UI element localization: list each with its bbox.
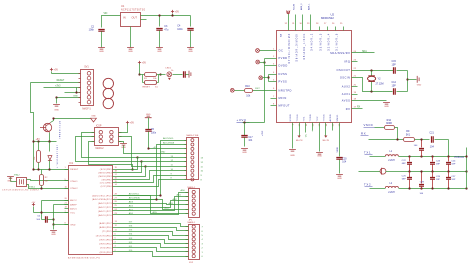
svg-text:LED1: LED1 — [166, 67, 172, 69]
wire digital 0 to JP4 — [118, 252, 204, 259]
wire analog AD5 to JP3 — [118, 196, 189, 214]
svg-text:AVSS: AVSS — [342, 99, 351, 103]
svg-text:AUX2: AUX2 — [342, 85, 351, 89]
ground triangle right of T1 — [91, 116, 97, 122]
wire TX1 stub down — [304, 123, 306, 138]
wire analog AD3 to JP3 — [118, 202, 189, 205]
svg-text:(ICP)PB0: (ICP)PB0 — [101, 186, 113, 188]
pushbutton S1 reset switch — [143, 75, 159, 89]
ground IC1 — [50, 231, 57, 237]
+5V rail above reset circuit — [34, 139, 57, 141]
svg-text:ADC4/SDA: ADC4/SDA — [163, 142, 174, 145]
svg-text:GND: GND — [417, 84, 422, 86]
svg-text:(SCK)PB5: (SCK)PB5 — [100, 169, 113, 171]
svg-text:+5V: +5V — [175, 10, 180, 13]
svg-text:(AIN0)PD6: (AIN0)PD6 — [99, 226, 112, 229]
svg-text:TX1: TX1 — [364, 150, 371, 154]
labels ADC nets at IC1 — [129, 193, 140, 216]
rail TX1 — [399, 156, 467, 158]
svg-text:OUT: OUT — [132, 15, 138, 19]
svg-text:TVSS: TVSS — [297, 114, 299, 121]
svg-text:D3/ADR_3: D3/ADR_3 — [319, 33, 322, 51]
svg-text:ADC4/SDA: ADC4/SDA — [129, 197, 140, 200]
svg-text:VMID: VMID — [337, 114, 339, 121]
inductor L1 2.2uH — [385, 151, 398, 162]
wire AVDD stub down — [332, 123, 334, 131]
wire PVDD DVDD tie — [265, 59, 277, 66]
capacitor C18 coupling — [414, 140, 424, 157]
junction at C3 tap — [158, 14, 160, 16]
junction MOSI bus — [144, 165, 146, 167]
capacitor C5 — [145, 118, 157, 149]
svg-text:VMID: VMID — [364, 123, 374, 127]
svg-text:(RXD)PD0: (RXD)PD0 — [100, 252, 113, 254]
wire AVSS to ground — [352, 100, 387, 102]
ground under C17 — [241, 149, 248, 155]
svg-text:GND: GND — [317, 156, 322, 158]
wire U2 top pin 25 — [343, 27, 345, 31]
capacitor C25 tuning — [402, 172, 412, 189]
svg-text:ADR_1: ADR_1 — [307, 3, 310, 10]
wire AUX1 stub — [352, 94, 358, 96]
svg-text:+3V3: +3V3 — [262, 130, 264, 136]
svg-text:IRQ: IRQ — [344, 60, 350, 64]
svg-text:MFRC522: MFRC522 — [321, 16, 334, 20]
net label +3V3 — [237, 118, 250, 122]
svg-text:IN: IN — [123, 15, 126, 19]
svg-text:18P: 18P — [451, 179, 455, 181]
wire VIN input net — [102, 13, 121, 28]
capacitor C22 tuning — [402, 157, 412, 172]
wire GND to JP2 — [124, 146, 187, 154]
svg-text:MA08-1: MA08-1 — [188, 221, 196, 224]
junctions TX1 rail — [408, 155, 449, 157]
IC IC1 ATMEGA body — [68, 162, 113, 260]
ground above C5 — [145, 114, 152, 118]
+5V supply symbol — [171, 10, 180, 14]
svg-text:(ADC0)PC0: (ADC0)PC0 — [98, 214, 112, 217]
power flag on R10 — [230, 88, 234, 92]
svg-text:CSTCE16M0V53-R0 16MHZ: CSTCE16M0V53-R0 16MHZ — [2, 189, 39, 191]
svg-text:DTC114EKA1: DTC114EKA1 — [58, 121, 61, 140]
wire RESET row — [34, 169, 69, 171]
wire digital 9 to JP2 — [118, 173, 187, 182]
capacitor C27 tuning — [446, 172, 456, 189]
wire MFIN stub — [271, 98, 277, 100]
capacitor C26 tuning — [430, 172, 441, 189]
junction SCK bus — [140, 160, 142, 162]
wire TVDD stub down — [312, 123, 314, 134]
svg-text:2.2UH: 2.2UH — [388, 160, 395, 162]
svg-text:(AIN1)PD7: (AIN1)PD7 — [99, 222, 112, 225]
ground sideways crystal — [408, 76, 422, 86]
svg-text:1N4148DO35-7: 1N4148DO35-7 — [56, 145, 58, 169]
svg-text:+5V: +5V — [142, 61, 147, 64]
+5V supply for ICSP — [119, 121, 135, 133]
svg-text:R10: R10 — [245, 85, 250, 88]
junction gnd tap — [52, 223, 54, 225]
junction T1 collector — [52, 117, 54, 119]
svg-text:GND: GND — [188, 51, 193, 53]
svg-text:820R: 820R — [386, 122, 392, 125]
wire +5V to SV1 pin1 — [52, 73, 81, 75]
svg-text:AVDD: AVDD — [329, 114, 332, 122]
svg-text:100n: 100n — [151, 133, 157, 135]
wire OSCIN to crystal — [352, 78, 408, 92]
wire analog AD2 to JP3 — [118, 198, 189, 208]
svg-text:ADC5/SCL: ADC5/SCL — [163, 137, 174, 140]
svg-text:68P: 68P — [402, 163, 406, 165]
resistor R3 reset pullup — [34, 142, 40, 170]
wire analog AD4 to JP3 — [118, 200, 189, 210]
U2 top pin names inside — [280, 33, 339, 64]
wire RESET net down left — [31, 83, 34, 170]
resistor R9 — [404, 130, 430, 141]
wire TX1 to L1 — [370, 156, 386, 158]
resistor R1 — [140, 73, 166, 81]
svg-text:18P: 18P — [436, 179, 440, 181]
wire AUX2 stub — [352, 86, 358, 88]
svg-text:GND: GND — [91, 116, 96, 118]
wire RX row — [369, 139, 404, 141]
+5V supply for ISP header — [50, 68, 59, 74]
svg-text:D2/ADR_4: D2/ADR_4 — [327, 33, 330, 51]
U2 top pin numbers — [285, 23, 343, 25]
wire digital 8 to JP2 — [118, 178, 187, 187]
capacitor C14 — [392, 81, 397, 95]
diode D1 1N4148 — [48, 142, 58, 170]
svg-text:(ADC5/SCL)PC5: (ADC5/SCL)PC5 — [92, 194, 112, 197]
wire digital 6 to JP4 — [118, 228, 204, 233]
svg-text:+5V: +5V — [54, 68, 59, 71]
ground under C20 — [336, 175, 343, 181]
crystal Y2 27.12MHz — [368, 71, 384, 92]
net label TX2 — [364, 182, 373, 186]
svg-text:RX: RX — [361, 131, 366, 135]
svg-text:RESET: RESET — [143, 87, 151, 89]
svg-text:ADC6: ADC6 — [70, 208, 77, 211]
wire ICSP GND pin — [119, 142, 124, 144]
capacitor C15 — [392, 60, 397, 74]
svg-text:GND: GND — [70, 225, 76, 227]
ground resonator — [7, 177, 14, 183]
wire U2 top pin 31 — [294, 4, 296, 31]
pin header ICSP 2x3 — [92, 125, 122, 150]
svg-text:D1/ADR_5: D1/ADR_5 — [335, 33, 338, 51]
wire SDA net — [352, 50, 375, 53]
svg-text:MA06-1: MA06-1 — [188, 186, 196, 189]
svg-text:(T1)PD5: (T1)PD5 — [102, 231, 112, 233]
svg-text:(ADC3)PC3: (ADC3)PC3 — [98, 202, 112, 205]
capacitor C29 center lower — [419, 172, 425, 196]
junction at +5V symbol — [171, 14, 173, 16]
wire U2 top pin 26 — [335, 27, 337, 31]
svg-text:RESET: RESET — [57, 80, 65, 82]
wire T1 emitter to rail — [49, 133, 51, 142]
junction rail right top — [465, 155, 467, 157]
rail right vertical — [466, 148, 468, 189]
wire AREF row — [54, 205, 69, 225]
svg-text:(SS)PB2: (SS)PB2 — [102, 179, 113, 181]
wire I2C/EA pin with fork symbol — [286, 11, 290, 31]
wire ADC4/SDA to JP2 — [118, 142, 187, 200]
wire TX2 pin to ground — [319, 123, 321, 152]
junction +5V row — [147, 147, 149, 149]
pin header JP2 upper — [185, 134, 199, 181]
U2 left pin names and numbers — [273, 48, 292, 107]
ground under U1 — [127, 48, 134, 54]
svg-text:47u: 47u — [164, 29, 169, 32]
junction crystal gnd — [406, 78, 408, 80]
svg-text:XTAL1: XTAL1 — [70, 180, 78, 183]
svg-text:MA10-1 WE: MA10-1 WE — [187, 134, 199, 137]
LED D2 power indicator — [166, 67, 175, 80]
junction VMID-RX — [396, 138, 398, 140]
IC1 right pin stubs and numbers — [113, 167, 118, 252]
IC1 left pin stubs and numbers — [65, 167, 69, 224]
junction R3 top — [37, 140, 39, 142]
svg-text:DVSS: DVSS — [279, 72, 288, 76]
svg-text:OSCIN: OSCIN — [340, 76, 350, 80]
svg-text:5K1: 5K1 — [406, 133, 411, 136]
wire analog AD0 to JP3 — [118, 189, 189, 214]
wire analog AD1 to JP3 — [118, 194, 189, 211]
svg-text:D4/ADR_2: D4/ADR_2 — [310, 33, 313, 51]
svg-text:AUX1: AUX1 — [342, 92, 351, 96]
capacitor C24 tuning — [446, 157, 456, 172]
wire ICSP MISO to bus — [82, 133, 138, 158]
svg-text:TX1: TX1 — [304, 116, 306, 122]
wire digital 5 to JP4 — [118, 232, 204, 238]
power flag DVSS — [259, 76, 269, 80]
resistor R10 — [235, 85, 253, 97]
wire U1 GND pin to ground — [130, 27, 132, 48]
ground sideways after C5 — [186, 71, 191, 78]
svg-text:GND: GND — [51, 234, 56, 236]
antenna symbol — [380, 168, 386, 175]
junction C17 tap — [243, 121, 245, 123]
svg-text:+5V: +5V — [130, 121, 135, 124]
svg-text:C21: C21 — [429, 132, 434, 135]
svg-text:RX: RX — [346, 107, 351, 111]
svg-text:MFIN: MFIN — [279, 96, 287, 100]
svg-text:RST: RST — [255, 88, 260, 90]
svg-text:D6/ADR_0/MOSI: D6/ADR_0/MOSI — [296, 33, 299, 62]
wire GND row — [54, 225, 69, 230]
svg-text:TX1: TX1 — [304, 134, 306, 137]
wire antenna to rail — [386, 171, 401, 173]
U2 right pin names and numbers — [330, 51, 357, 111]
U2 bottom pin names and numbers — [290, 114, 341, 127]
junction PVDD tap — [263, 61, 265, 63]
junction C18 top — [420, 138, 422, 140]
wire AVCC row — [42, 201, 69, 220]
svg-text:15P: 15P — [392, 63, 397, 66]
svg-text:ATMEGA48/88/168-PU: ATMEGA48/88/168-PU — [68, 257, 100, 260]
svg-text:IC1: IC1 — [70, 162, 74, 165]
junction cap right — [52, 218, 54, 220]
svg-text:D5/ADR_1/SCK: D5/ADR_1/SCK — [303, 33, 306, 60]
wire RX down to TX1 rail — [448, 140, 450, 157]
svg-text:68P: 68P — [402, 179, 406, 181]
junction RESET-R3 — [37, 168, 39, 170]
wire resonator to XTAL1 — [27, 180, 69, 189]
svg-text:(INT0)PD2: (INT0)PD2 — [99, 244, 112, 246]
junction MISO bus — [136, 156, 138, 158]
wire IRQ stub — [352, 61, 358, 63]
power flag OC — [256, 49, 260, 53]
rail TX2 — [399, 188, 467, 190]
svg-text:NRSTPD: NRSTPD — [279, 88, 292, 92]
wire TVSS pin 14 — [323, 123, 330, 142]
junction AD4 tap — [155, 198, 157, 200]
wire digital 10 to JP2 — [118, 169, 187, 180]
svg-text:OC: OC — [279, 49, 284, 53]
svg-text:SDA: SDA — [362, 50, 367, 53]
capacitor C4 — [177, 25, 193, 48]
capacitor C6 — [36, 215, 53, 222]
wire U2 top pin 29 — [307, 3, 310, 31]
wire TX2 to L2 — [370, 188, 386, 190]
svg-text:10k: 10k — [34, 157, 36, 160]
ground under C4 — [187, 48, 194, 54]
wire U2 top pin 28 — [319, 27, 321, 31]
junctions mid rail — [408, 170, 467, 172]
net label VMID — [364, 123, 375, 127]
wire digital 1 to JP4 — [118, 248, 204, 254]
wire +3V3 to SV1 — [44, 85, 81, 87]
junction left of R1 — [138, 73, 140, 75]
svg-text:(MOSI)PB3: (MOSI)PB3 — [98, 176, 112, 178]
svg-text:(ADC4/SDA)PC4: (ADC4/SDA)PC4 — [92, 198, 112, 201]
ground for ISP — [53, 98, 60, 112]
IC1 left pin names — [70, 169, 79, 226]
net label RX — [361, 131, 369, 135]
svg-text:GND: GND — [54, 109, 59, 111]
svg-text:MA07-1: MA07-1 — [82, 107, 91, 110]
capacitor C17 — [241, 123, 253, 147]
svg-text:(MISO)PB4: (MISO)PB4 — [98, 173, 112, 175]
transistor T1 DTC114 — [40, 121, 61, 140]
svg-text:TVSS: TVSS — [324, 114, 326, 121]
svg-text:GND: GND — [290, 155, 295, 157]
resistor R12 — [385, 119, 398, 140]
svg-text:M6-LTN: M6-LTN — [296, 140, 303, 142]
svg-text:AVCC: AVCC — [70, 199, 77, 202]
wire digital 2 to JP4 — [118, 244, 204, 250]
wire RESET to SV1 — [31, 80, 81, 82]
junction GND column — [55, 96, 57, 98]
resonator Q1 CSTCE16M — [2, 178, 39, 192]
svg-text:RX: RX — [357, 106, 361, 108]
wire digital 4 to JP4 — [118, 236, 204, 242]
svg-text:TX2: TX2 — [364, 182, 371, 186]
resistor R2 xtal — [40, 170, 49, 189]
svg-text:VCC: VCC — [70, 213, 75, 215]
svg-text:NCP1117ST50T3G: NCP1117ST50T3G — [121, 10, 145, 12]
svg-text:2.2UH: 2.2UH — [388, 192, 395, 194]
junction on MISO row — [75, 91, 77, 93]
capacitor C3 — [156, 25, 169, 47]
wire NRSTPD to R10 — [253, 88, 277, 90]
wire MISO to SV1 — [65, 88, 81, 93]
junction AD5 tap — [159, 194, 161, 196]
svg-text:PVDD: PVDD — [279, 56, 288, 60]
svg-text:C17: C17 — [248, 137, 253, 139]
svg-text:XTAL2: XTAL2 — [14, 174, 21, 177]
wire LED to cap — [173, 74, 183, 76]
capacitor C5 — [184, 71, 186, 77]
junction T1 emitter — [48, 140, 50, 142]
svg-text:104: 104 — [430, 146, 435, 149]
svg-text:ICSP: ICSP — [96, 125, 102, 127]
wire digital 7 to JP4 — [118, 224, 204, 229]
net label PCB Ant — [455, 156, 465, 159]
wire resonator to XTAL2 — [14, 174, 69, 189]
svg-text:ADC5/SCL: ADC5/SCL — [129, 193, 140, 196]
wire ICSP SCK to bus — [76, 137, 142, 162]
svg-text:D7/SCL/MISO/MX: D7/SCL/MISO/MX — [288, 33, 291, 64]
wire OC pin to power flag — [260, 50, 277, 52]
pin header JP4 digital — [186, 221, 200, 264]
ground under C3 — [156, 48, 163, 54]
svg-text:M6-LTN: M6-LTN — [323, 140, 330, 142]
svg-text:GND: GND — [160, 151, 165, 153]
svg-text:TVDD: TVDD — [310, 114, 312, 122]
junction RESET-ISP — [32, 168, 34, 170]
wire VMID down to C20 — [337, 123, 340, 157]
svg-text:GND: GND — [73, 96, 78, 98]
IC1 right pin names — [92, 169, 112, 254]
svg-text:ADR_0: ADR_0 — [300, 3, 303, 10]
svg-text:(ADC1)PC1: (ADC1)PC1 — [98, 210, 112, 213]
wire resonator ground — [11, 177, 17, 182]
inductor L2 2.2uH — [385, 183, 398, 194]
junction right of R1 — [159, 73, 161, 75]
mounting hole H2 — [103, 88, 113, 98]
svg-text:100n: 100n — [177, 28, 183, 31]
wire TVSS pin 10 — [296, 123, 303, 142]
svg-text:RESET: RESET — [70, 169, 79, 171]
svg-text:18P: 18P — [436, 164, 440, 166]
junction C29 top — [420, 170, 422, 172]
junction rail at ISP vertical — [32, 140, 34, 142]
wire T1 collector to GND net — [51, 119, 91, 123]
svg-text:TX2: TX2 — [317, 116, 319, 122]
svg-text:AREF: AREF — [70, 204, 77, 207]
svg-text:C20: C20 — [342, 158, 347, 160]
svg-text:(ADC2)PC2: (ADC2)PC2 — [98, 206, 112, 209]
svg-text:GND: GND — [157, 51, 162, 53]
svg-text:OSCOUT: OSCOUT — [337, 68, 351, 72]
wire ICSP MOSI to bus — [119, 137, 146, 167]
svg-text:GND: GND — [99, 51, 104, 53]
svg-text:100n: 100n — [89, 29, 95, 32]
capacitor C21 — [429, 132, 448, 149]
svg-text:MA03-2: MA03-2 — [96, 147, 105, 150]
junction D1 top — [48, 140, 50, 142]
svg-text:GND: GND — [384, 106, 389, 108]
capacitor C2 — [89, 25, 105, 47]
+5V supply for reset circuit — [138, 61, 147, 75]
wire GND to SV1 — [57, 96, 81, 98]
wire MFOUT stub — [271, 105, 277, 107]
wire ICSP RESET to bus — [89, 142, 133, 170]
wire OSCOUT to crystal — [352, 71, 408, 92]
capacitor C23 tuning — [430, 157, 441, 172]
ground under SVDD — [289, 150, 296, 158]
svg-text:VMID: VMID — [337, 147, 339, 153]
